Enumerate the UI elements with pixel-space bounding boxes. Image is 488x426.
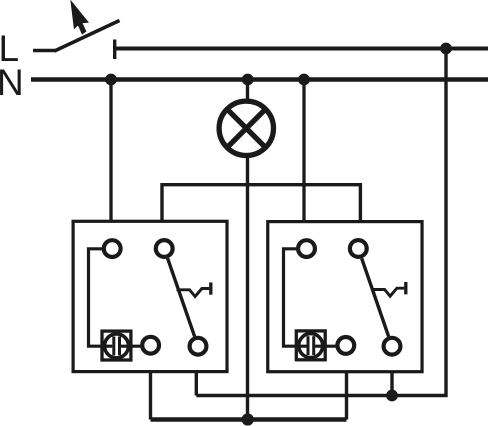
wire N to box U2 — [302, 80, 305, 223]
wire bottom line — [151, 417, 347, 422]
wire U1 bottom-right down — [195, 372, 198, 396]
wire glow lamp U1 to terminal — [121, 345, 141, 348]
wire U1 bottom-middle to bottom line — [149, 372, 152, 420]
node lamp bottom junction — [242, 413, 254, 425]
terminal U2 top-left — [298, 240, 315, 257]
wire U2 internal loop — [284, 249, 307, 346]
lamp E1 — [219, 101, 273, 155]
node return junction — [386, 390, 398, 402]
switch U2 rocker symbol — [372, 288, 404, 296]
box U2 — [268, 222, 422, 372]
box U1 — [73, 221, 227, 371]
terminal U1 bottom-middle — [142, 337, 159, 354]
node L junction — [440, 43, 452, 55]
glow lamp U1 electrode left — [112, 337, 115, 356]
glow lamp U1 square — [102, 331, 131, 360]
node N junction lamp — [242, 74, 254, 86]
switch U1 rocker symbol — [177, 289, 210, 297]
wire connector between box tops — [162, 185, 360, 223]
wire U1 internal loop — [89, 249, 113, 346]
glow lamp U1 electrode right — [118, 337, 121, 356]
terminal U2 bottom-right — [384, 338, 401, 355]
switch S1 actuation arrow — [71, 1, 88, 34]
terminal U1 top-right — [156, 240, 173, 257]
glow lamp U2 electrode right — [312, 336, 315, 355]
terminal U2 top-right — [350, 240, 367, 257]
wire L line — [116, 47, 488, 51]
wire N to lamp — [246, 80, 249, 102]
wire glow lamp U2 to terminal — [315, 345, 336, 348]
switch U2 rocker end bar — [404, 282, 407, 294]
wire N to box U1 — [109, 80, 112, 222]
terminal U2 bottom-middle — [337, 337, 354, 354]
glow lamp U2 electrode left — [307, 336, 310, 355]
switch U2 blade — [362, 258, 389, 336]
switch S1 blade — [55, 21, 120, 52]
svg-text:N: N — [0, 62, 24, 103]
node N junction right — [298, 74, 310, 86]
wire U2 bottom-middle to bottom line — [345, 372, 348, 420]
wire N line — [31, 77, 488, 82]
wire L stub — [33, 49, 56, 53]
terminal U1 bottom-right — [190, 338, 207, 355]
terminal U1 top-left — [104, 240, 121, 257]
node N junction left — [105, 74, 117, 86]
switch U1 blade — [168, 258, 195, 336]
glow lamp U1 circle — [105, 334, 129, 358]
wire U2 bottom-right down — [390, 372, 393, 396]
switch U1 rocker end bar — [209, 282, 212, 294]
wire return line to L — [196, 49, 446, 396]
glow lamp U2 circle — [299, 334, 323, 358]
wire lamp to bottom line — [246, 156, 249, 420]
switch S1 fixed contact — [113, 40, 116, 60]
glow lamp U2 square — [296, 331, 325, 360]
